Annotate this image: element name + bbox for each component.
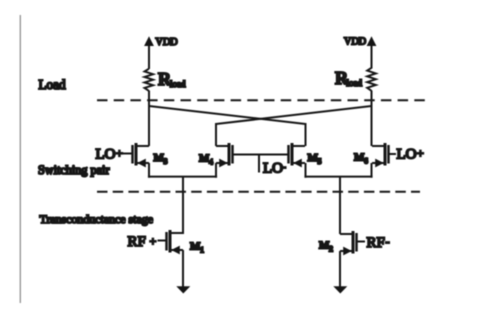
wire: LO- stub: [258, 155, 260, 173]
label RF+: [128, 234, 157, 250]
label LO+ (left): [96, 146, 124, 162]
svg-text:LO: LO: [397, 147, 417, 163]
wire: RF+ lead to M1 gate: [158, 240, 167, 242]
wire: M5 source drop: [305, 163, 307, 178]
transistor M6: [372, 143, 389, 167]
svg-text:load: load: [347, 78, 363, 88]
wire: M4 gate to M5 gate (LO- net): [233, 154, 289, 156]
wire: M4 drain riser: [215, 123, 217, 146]
svg-text:RF: RF: [367, 235, 385, 251]
label M4: [199, 153, 213, 167]
wire: left pair common source bus: [148, 176, 217, 178]
label LO-: [263, 160, 286, 177]
power symbol VDD (right): [367, 36, 377, 68]
svg-text:+: +: [417, 146, 424, 160]
current sink arrow (right): [333, 286, 347, 293]
svg-text:5: 5: [318, 157, 322, 166]
transistor M1: [167, 230, 184, 254]
label M3: [154, 152, 168, 166]
wire: left load to M3 drain: [148, 91, 150, 147]
svg-text:Transconductance stage: Transconductance stage: [40, 212, 153, 226]
current sink arrow (left): [176, 286, 190, 293]
svg-text:load: load: [170, 79, 186, 89]
transistor M2: [340, 231, 357, 255]
svg-text:-: -: [386, 235, 390, 249]
left margin rule: [19, 15, 21, 303]
wire: M6 gate to LO+ lead: [389, 153, 397, 155]
wire: M2 source drop: [339, 251, 341, 287]
svg-text:VDD: VDD: [156, 37, 178, 48]
label LO+ (right): [397, 146, 425, 162]
wire: M3 source drop: [148, 163, 150, 178]
resistor Rload (left): [145, 69, 154, 91]
wire: right tail to M2 drain: [339, 177, 341, 234]
power symbol VDD (left): [144, 36, 154, 69]
svg-text:+: +: [116, 146, 123, 160]
label Rload (left): [158, 69, 186, 89]
svg-text:RF: RF: [128, 234, 146, 250]
label RF-: [367, 235, 390, 252]
svg-text:+: +: [150, 234, 157, 248]
svg-text:VDD: VDD: [344, 36, 366, 47]
label M1: [190, 241, 204, 255]
dashed separator: load / switching pair: [97, 99, 428, 101]
wire: left tail to M1 drain: [182, 177, 184, 234]
wire: RF- lead to M2 gate: [357, 241, 366, 243]
dashed separator: switching pair / transconductance stage: [97, 191, 420, 193]
transistor M3: [133, 143, 150, 167]
svg-text:6: 6: [364, 157, 368, 166]
wire: right pair common source bus: [304, 176, 372, 178]
wire: LO+ lead to M3 gate: [123, 153, 133, 155]
wire: cross-couple right load to M4 drain: [216, 106, 372, 124]
wire: right load to M6 drain: [371, 91, 373, 147]
wire: cross-couple left load to M5 drain: [149, 106, 306, 124]
svg-text:LO: LO: [96, 146, 116, 162]
label Rload (right): [335, 68, 362, 88]
svg-text:Switching pair: Switching pair: [38, 163, 109, 177]
resistor Rload (right): [367, 68, 376, 91]
label M5: [308, 152, 322, 166]
wire: M1 source drop: [182, 250, 184, 287]
transistor M4: [216, 143, 233, 167]
wire: M4 source drop: [215, 163, 217, 178]
label M2: [319, 240, 333, 254]
svg-text:-: -: [282, 160, 286, 174]
label M6: [354, 152, 368, 166]
svg-text:LO: LO: [263, 161, 283, 177]
wire: M6 source drop: [371, 163, 373, 178]
svg-text:Load: Load: [39, 77, 67, 92]
wire: M5 drain riser: [305, 123, 307, 146]
transistor M5: [289, 143, 306, 167]
svg-text:2: 2: [329, 245, 333, 254]
svg-text:3: 3: [164, 157, 168, 166]
svg-text:4: 4: [209, 158, 213, 167]
svg-text:1: 1: [200, 246, 204, 255]
